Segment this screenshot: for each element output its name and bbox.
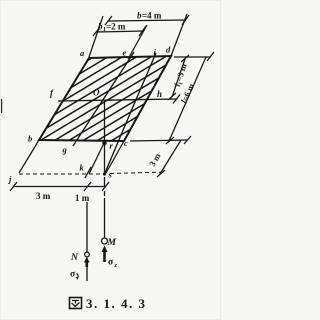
paper background [0,0,221,320]
svg-text:=2 m: =2 m [106,22,126,32]
svg-text:=4 m: =4 m [142,11,162,21]
extension c right (horizontal) [130,136,191,144]
svg-text:g: g [62,145,68,155]
dashed line j-k-s [19,173,103,175]
axis f-h (horizontal centre line with end tick) [58,95,180,104]
svg-text:1 m: 1 m [75,193,90,203]
centre line e-O-g [73,52,134,146]
tick at k [85,167,91,178]
svg-text:σ: σ [108,258,114,268]
svg-text:z: z [114,262,118,269]
moment M circle [102,238,108,244]
node s [103,172,106,175]
hatching of foundation plan [30,5,180,198]
svg-text:b: b [28,134,32,144]
extension d up [171,14,187,56]
extension s right (dashed) [110,172,166,174]
svg-text:3. 1. 4. 3: 3. 1. 4. 3 [86,296,147,311]
force N line [86,202,88,252]
node r [102,141,106,145]
line c to s [106,141,124,173]
line r to k [89,143,104,174]
dimension b1=2m [93,26,146,36]
extension a up [89,16,103,57]
caption: tu (drawn CJK glyph) [70,298,82,309]
foundation plan outline a-d-c-b [39,56,171,141]
dimension l=6m (slanted) [166,57,206,144]
dimension 3m (right, slanted) [157,140,181,177]
scan artifact left margin [0,99,2,113]
svg-text:N: N [70,253,79,263]
svg-text:O: O [93,88,100,98]
extension d right (horizontal) [174,52,214,61]
svg-text:M: M [107,238,117,248]
sigma arrow under N (up) [84,257,90,282]
extension b down to j [19,140,39,173]
vertical axis through O, r, s [104,101,106,238]
extension e up [128,25,147,59]
svg-text:h: h [157,89,162,99]
svg-text:c: c [124,138,128,148]
dimension b=4m [105,15,189,25]
svg-text:σ: σ [70,270,76,280]
svg-text:3 m: 3 m [36,191,51,201]
bottom dimension line 3m / 1m [10,182,109,191]
svg-text:e: e [123,48,127,58]
line i-s (through plan to point s) [105,53,156,173]
dimension l1=3m (slanted, right of plan) [168,55,189,100]
node N circle [85,252,90,257]
sigma-z arrow (up) [102,246,108,263]
svg-text:s: s [108,170,113,180]
